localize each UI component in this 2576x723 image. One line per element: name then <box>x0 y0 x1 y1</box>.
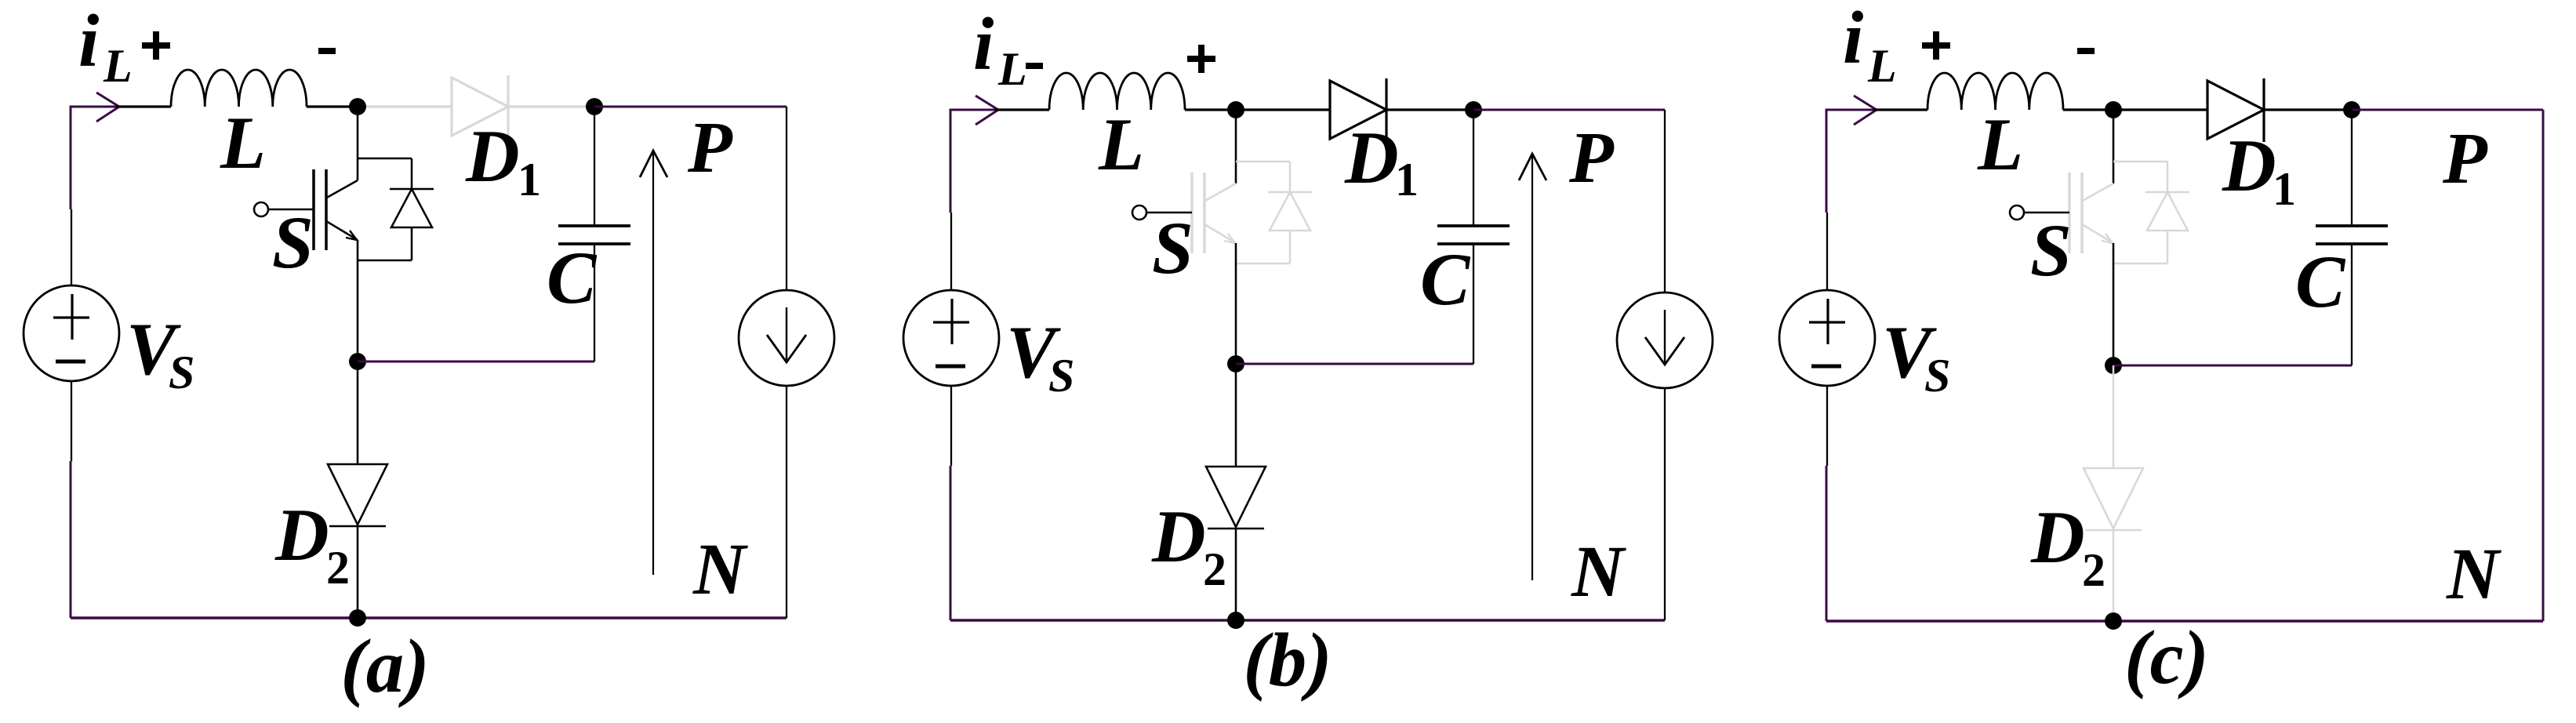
svg-text:D: D <box>465 114 520 198</box>
wire: left rail purple lower (b) <box>950 466 952 620</box>
svg-text:C: C <box>1420 238 1471 321</box>
svg-text:P: P <box>1568 118 1615 198</box>
diode D2 cathode bar (b) <box>1208 528 1264 530</box>
wire: black lead from arrow to inductor (b) <box>995 108 1049 111</box>
polarity minus (c) <box>2077 48 2095 54</box>
IGBT S emitter diagonal with arrow (a) <box>326 221 358 240</box>
subcircuit (a) : switch S conducting state <box>24 0 834 708</box>
svg-text:i: i <box>1843 0 1863 79</box>
IGBT S emitter diagonal with arrow (b) <box>1204 224 1236 243</box>
IGBT S bottom tie bar (b) <box>1236 263 1290 265</box>
wire: top-right purple segment (a) <box>594 106 787 108</box>
wire: black lead from arrow to inductor (a) <box>116 105 171 107</box>
wire: capacitor bottom down to junction wire (b) <box>1473 244 1474 364</box>
node: S emitter / D2 / C-return junction (a) <box>349 353 366 370</box>
wire: bottom rail purple (c) <box>1826 619 2543 622</box>
svg-text:(c): (c) <box>2124 616 2209 699</box>
IGBT anti-parallel diode upper lead (a) <box>411 158 413 189</box>
svg-text:L: L <box>997 43 1027 95</box>
svg-text:C: C <box>547 236 598 319</box>
IGBT S gate bar (a) <box>312 169 315 250</box>
IGBT S emitter diagonal with arrow (c) <box>2082 224 2113 243</box>
wire: D2 cathode down to bottom rail (a) <box>357 526 359 618</box>
wire: node to IGBT collector black (c) <box>2113 110 2115 183</box>
IGBT S bottom tie bar (a) <box>358 260 412 262</box>
wire: top-right purple segment (b) <box>1473 109 1665 111</box>
svg-text:D: D <box>1151 495 1206 578</box>
svg-text:L: L <box>220 101 266 184</box>
wire: VS bottom lead black (a) <box>71 381 72 461</box>
svg-text:1: 1 <box>518 154 541 205</box>
wire: VS bottom lead black (b) <box>950 386 952 466</box>
diode D2 cathode bar (c) <box>2085 529 2142 532</box>
node: D1/C/P junction (a) <box>586 98 603 115</box>
svg-text:P: P <box>2442 118 2488 199</box>
wire: top-left purple segment with source-current arrow, circuit (a) <box>71 106 121 108</box>
wire: node to diode D1 anode (c) <box>2113 108 2207 111</box>
wire: purple junction to capacitor bottom (a) <box>358 361 594 363</box>
wire: capacitor bottom down to junction wire (a) <box>594 244 595 361</box>
current source (b) <box>1617 292 1713 388</box>
wire: node P down to capacitor (b) <box>1473 110 1474 226</box>
wire: D1 cathode to node P (c) <box>2264 108 2352 111</box>
IGBT anti-parallel diode lower lead (b) <box>1289 231 1292 263</box>
VS minus sign (a) <box>56 360 85 364</box>
wire: right rail lower black (b) <box>1664 388 1666 620</box>
subcircuit (c) : discontinuous state <box>1779 0 2543 699</box>
svg-text:D: D <box>274 493 329 576</box>
capacitor C top plate (b) <box>1437 224 1510 227</box>
IGBT anti-parallel diode lower lead (c) <box>2167 231 2169 263</box>
svg-text:S: S <box>2030 209 2072 292</box>
wire: left rail purple upper (b) <box>950 109 952 213</box>
wire: right rail purple (c) <box>2542 110 2545 621</box>
wire: VS top lead black (c) <box>1826 213 1828 290</box>
IGBT S top tie bar (b) <box>1236 161 1290 163</box>
wire: IGBT emitter down to junction (b) <box>1235 243 1237 364</box>
wire: inductor to node (a) <box>307 105 358 107</box>
polarity plus (b) <box>1187 56 1215 62</box>
current arrow i_L (c) <box>1854 96 1877 125</box>
capacitor C bottom plate (a) <box>558 242 630 245</box>
svg-text:S: S <box>1048 350 1074 401</box>
svg-text:N: N <box>692 529 748 610</box>
wire: D1 cathode to node P (a) <box>508 105 594 107</box>
IGBT S collector diagonal (a) <box>325 180 358 198</box>
wire: purple junction to capacitor bottom (b) <box>1236 363 1473 365</box>
diode D1 (a) <box>452 78 508 136</box>
svg-text:L: L <box>1977 103 2023 186</box>
VS minus sign (c) <box>1811 365 1841 369</box>
wire: right rail upper black (a) <box>786 107 787 290</box>
wire: node to IGBT collector black (a) <box>357 107 359 180</box>
capacitor C top plate (a) <box>558 224 630 227</box>
svg-text:S: S <box>1924 350 1950 401</box>
IGBT anti-parallel diode triangle (a) <box>391 189 432 227</box>
svg-text:D: D <box>2222 124 2276 207</box>
VS plus sign (c) <box>1826 299 1829 344</box>
capacitor C bottom plate (c) <box>2316 242 2388 245</box>
svg-text:i: i <box>973 2 994 85</box>
node: bottom rail junction (c) <box>2105 612 2122 630</box>
inductor L (c) <box>1927 73 2063 110</box>
wire: node to IGBT collector black (b) <box>1235 110 1237 183</box>
node: inductor/switch/D1 junction (b) <box>1227 101 1244 118</box>
svg-text:2: 2 <box>2082 544 2105 596</box>
svg-text:L: L <box>1867 40 1897 92</box>
current arrow i_L (b) <box>976 96 998 125</box>
svg-text:S: S <box>272 201 314 284</box>
IGBT anti-parallel diode upper lead (b) <box>1289 162 1292 192</box>
diode D1 cathode bar (c) <box>2262 78 2265 142</box>
svg-text:D: D <box>1344 116 1399 199</box>
wire: node P down to capacitor (c) <box>2351 110 2353 226</box>
IGBT anti-parallel diode cathode bar (b) <box>1268 191 1312 194</box>
node: inductor/switch/D1 junction (a) <box>349 98 366 115</box>
VS plus sign (a) <box>71 294 73 340</box>
IGBT S body bar (c) <box>2080 173 2084 253</box>
current source arrow (b) <box>1664 310 1666 362</box>
IGBT S gate terminal circle (c) <box>2010 205 2024 220</box>
svg-text:P: P <box>687 107 733 188</box>
diode D1 (b) <box>1330 81 1386 139</box>
svg-text:C: C <box>2295 240 2346 323</box>
wire: top-left purple segment with source-current arrow, circuit (c) <box>1826 109 1878 111</box>
svg-text:L: L <box>1098 103 1144 186</box>
IGBT anti-parallel diode triangle (c) <box>2147 192 2188 231</box>
wire: node to diode D1 anode (a) <box>358 105 452 107</box>
IGBT S top tie bar (a) <box>358 158 412 160</box>
current source (a) <box>739 290 834 386</box>
wire: bottom rail purple (b) <box>950 619 1665 621</box>
svg-text:N: N <box>1571 532 1626 612</box>
wire: node to diode D1 anode (b) <box>1236 108 1330 111</box>
wire: VS top lead black (b) <box>950 213 952 290</box>
svg-text:D: D <box>2030 496 2085 579</box>
wire: right rail upper black (b) <box>1664 110 1666 292</box>
IGBT S collector diagonal (b) <box>1204 183 1236 202</box>
IGBT S body bar (b) <box>1203 173 1206 253</box>
diode D2 triangle (c) <box>2084 468 2143 529</box>
capacitor C bottom plate (b) <box>1437 242 1510 245</box>
capacitor C top plate (c) <box>2316 224 2388 227</box>
current arrow i_L (a) <box>96 93 119 122</box>
output voltage arrow N to P (b) <box>1531 155 1533 580</box>
IGBT anti-parallel diode triangle (b) <box>1270 192 1310 231</box>
wire: VS bottom lead black (c) <box>1826 386 1828 466</box>
node: bottom rail junction (b) <box>1227 612 1244 629</box>
VS plus sign (b) <box>950 299 953 344</box>
IGBT S bottom tie bar (c) <box>2113 263 2167 265</box>
diode D2 cathode bar (a) <box>329 525 386 528</box>
diode D1 cathode bar (a) <box>507 75 509 139</box>
svg-text:2: 2 <box>1203 543 1226 595</box>
polarity plus (a) <box>142 42 170 49</box>
wire: VS top lead black (a) <box>71 209 72 285</box>
node: inductor/switch/D1 junction (c) <box>2105 101 2122 118</box>
wire: junction down to diode D2 (b) <box>1235 364 1237 467</box>
voltage source VS circle (b) <box>903 290 999 386</box>
node: bottom rail junction (a) <box>349 609 366 627</box>
inductor L (a) <box>171 70 307 107</box>
svg-text:N: N <box>2446 534 2502 615</box>
wire: black lead from arrow to inductor (c) <box>1873 108 1927 111</box>
IGBT S body bar (a) <box>325 169 328 250</box>
svg-text:1: 1 <box>1395 154 1419 205</box>
wire: left rail purple lower (a) <box>70 461 72 618</box>
svg-text:(a): (a) <box>340 624 429 708</box>
diode D1 cathode bar (b) <box>1385 78 1387 142</box>
VS minus sign (b) <box>936 365 965 369</box>
wire: D2 cathode down to bottom rail (b) <box>1235 529 1237 620</box>
wire: bottom rail purple (a) <box>71 616 787 619</box>
node: S emitter / D2 / C-return junction (b) <box>1227 355 1244 372</box>
wire: junction down to diode D2 (a) <box>357 361 359 464</box>
svg-text:2: 2 <box>326 542 350 594</box>
wire: node P down to capacitor (a) <box>594 107 595 226</box>
wire: inductor to node (c) <box>2063 108 2113 111</box>
node: D1/C/P junction (c) <box>2343 101 2360 118</box>
wire: IGBT emitter down to junction (c) <box>2113 243 2115 365</box>
wire: purple junction to capacitor bottom (c) <box>2113 365 2352 367</box>
wire: junction down to diode D2 (c) <box>2113 365 2115 468</box>
polarity plus (c) <box>1922 42 1950 49</box>
IGBT S gate lead black (a) <box>268 209 314 211</box>
IGBT anti-parallel diode upper lead (c) <box>2167 162 2169 192</box>
svg-text:S: S <box>1152 206 1194 289</box>
IGBT S gate terminal circle (a) <box>254 202 268 216</box>
IGBT S gate lead black (b) <box>1146 212 1192 214</box>
polarity minus (a) <box>318 48 336 54</box>
svg-text:1: 1 <box>2273 163 2296 215</box>
IGBT anti-parallel diode cathode bar (a) <box>390 188 434 191</box>
wire: left rail purple upper (a) <box>70 106 72 210</box>
wire: inductor to node (b) <box>1185 108 1236 111</box>
IGBT anti-parallel diode lower lead (a) <box>411 227 413 260</box>
wire: left rail purple upper (c) <box>1826 109 1828 213</box>
current source arrow (a) <box>786 307 787 360</box>
inductor L (b) <box>1049 73 1185 110</box>
wire: top-right purple segment (c) <box>2352 109 2543 111</box>
output voltage arrow N to P (a) <box>652 152 654 575</box>
voltage source VS circle (a) <box>24 285 119 381</box>
wire: left rail purple lower (c) <box>1826 466 1828 621</box>
subcircuit (b) : diode D1 conducting state <box>903 2 1713 702</box>
IGBT S gate bar (c) <box>2068 173 2071 253</box>
IGBT S top tie bar (c) <box>2113 161 2167 163</box>
svg-text:L: L <box>103 40 133 92</box>
wire: capacitor bottom down to junction wire (c) <box>2351 244 2353 365</box>
voltage source VS circle (c) <box>1779 290 1875 386</box>
IGBT anti-parallel diode cathode bar (c) <box>2145 191 2189 194</box>
IGBT S collector diagonal (c) <box>2081 183 2113 202</box>
svg-text:i: i <box>78 0 99 82</box>
IGBT S gate terminal circle (b) <box>1132 205 1146 220</box>
IGBT S gate bar (b) <box>1190 173 1194 253</box>
diode D2 triangle (a) <box>328 464 387 525</box>
wire: IGBT emitter down to junction (a) <box>357 240 359 361</box>
wire: top-left purple segment with source-current arrow, circuit (b) <box>950 109 1000 111</box>
svg-text:S: S <box>169 347 194 398</box>
wire: D2 cathode down to bottom rail (c) <box>2113 530 2115 621</box>
IGBT S gate lead black (c) <box>2024 212 2069 214</box>
wire: right rail lower black (a) <box>786 386 787 618</box>
wire: D1 cathode to node P (b) <box>1386 108 1473 111</box>
diode D1 (c) <box>2207 81 2264 139</box>
svg-text:(b): (b) <box>1243 618 1332 702</box>
node: S emitter / D2 / C-return junction (c) <box>2105 357 2122 374</box>
node: D1/C/P junction (b) <box>1465 101 1482 118</box>
diode D2 triangle (b) <box>1206 467 1266 527</box>
